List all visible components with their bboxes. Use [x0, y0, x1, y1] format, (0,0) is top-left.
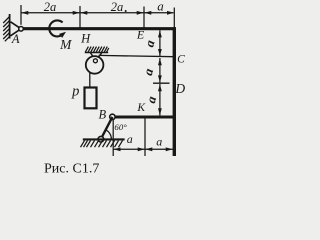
arrowhead right toward middle tick: [138, 147, 145, 151]
arrowhead left at A: [21, 11, 28, 15]
svg-text:C: C: [177, 53, 185, 65]
arrowhead left toward middle tick: [145, 147, 152, 151]
bottom dimension extension below B: [112, 120, 114, 156]
dot after middle 2a: [125, 10, 127, 12]
wall at A: [9, 14, 11, 39]
D tick line: [153, 82, 170, 84]
top dimension extension line above A: [20, 5, 22, 25]
svg-text:H: H: [80, 31, 91, 45]
rod B to ground pin: [101, 117, 113, 139]
arrowhead down (K level): [158, 108, 162, 115]
rope from pulley to C: [99, 55, 174, 56]
arrowhead down (D level): [158, 75, 162, 82]
arrowhead up (D level): [158, 84, 162, 91]
svg-text:a: a: [156, 134, 162, 148]
pulley wheel: [86, 56, 104, 74]
ground hatching: [81, 141, 123, 148]
arrowhead up (beam): [158, 30, 162, 37]
rope from pulley down to weight: [89, 73, 91, 88]
pulley ceiling line: [85, 52, 108, 54]
svg-text:K: K: [136, 102, 146, 114]
svg-text:D: D: [174, 81, 185, 96]
pulley axle: [93, 59, 97, 63]
arrowhead right at beam: [166, 147, 173, 151]
svg-text:p: p: [71, 83, 79, 99]
ground pin circle: [98, 136, 104, 142]
svg-text:60°: 60°: [114, 122, 127, 132]
arrowhead right toward H tick: [73, 11, 80, 15]
svg-text:a: a: [127, 132, 133, 146]
svg-text:B: B: [98, 107, 106, 121]
weight P box: [85, 88, 97, 109]
pin circle A: [19, 27, 24, 32]
ground line: [83, 138, 125, 140]
wall hatching: [3, 17, 9, 42]
top dimension extension line above H: [79, 6, 81, 28]
arrowhead right at corner: [167, 11, 174, 15]
pulley bracket: [91, 53, 102, 60]
svg-text:2a: 2a: [111, 0, 124, 14]
bottom dimension middle tick: [144, 119, 146, 157]
svg-text:Рис. С1.7: Рис. С1.7: [44, 162, 99, 177]
top dimension line: [21, 12, 174, 14]
svg-text:A: A: [11, 32, 20, 46]
top dimension right extension at corner: [173, 8, 175, 29]
vertical beam right side: [173, 27, 176, 156]
moment M arrowhead: [59, 32, 66, 38]
top beam A to corner: [23, 27, 176, 30]
arrowhead left toward tick x=144: [144, 11, 151, 15]
right vertical dimension line: D to K: [159, 84, 161, 115]
moment M arc: [49, 20, 62, 36]
ceiling hatching: [85, 47, 109, 53]
svg-text:2a: 2a: [44, 0, 57, 14]
svg-text:M: M: [59, 37, 72, 52]
bottom beam B to vertical beam: [115, 116, 176, 119]
bottom dimension line: [113, 148, 173, 150]
arrowhead right toward tick x=144: [137, 11, 144, 15]
arrowhead left at B extension: [114, 147, 121, 151]
arrowhead down (C level): [158, 49, 162, 56]
svg-text:a: a: [157, 0, 164, 13]
right vertical dimension line: beam to C: [159, 30, 161, 56]
support triangle at A: [11, 22, 22, 36]
arrowhead left toward H tick: [80, 11, 87, 15]
60 degree arc: [106, 130, 112, 140]
right vertical dimension line: C to D: [159, 58, 161, 83]
arrowhead up (C level): [158, 58, 162, 65]
top dimension tick x=144: [143, 7, 145, 29]
pin circle B: [110, 114, 115, 119]
